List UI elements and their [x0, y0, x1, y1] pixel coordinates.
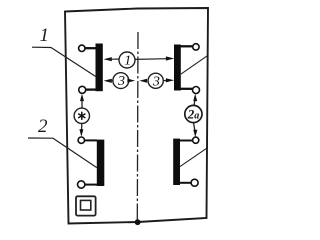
dimension row 2 right: left arrowhead from centerline [139, 79, 147, 83]
dimension row 1: right line across centerline [135, 58, 168, 61]
contact bracket top-right: upper arm wire [181, 45, 193, 47]
contact bracket top-left: upper arm wire [85, 47, 97, 49]
contact bracket top-left: lower terminal circle [79, 86, 86, 93]
dimension row 2 right: right arrowhead [166, 78, 174, 82]
centerline (dash-dot axis) [136, 32, 139, 221]
contact bracket bottom-left: upper arm wire [85, 139, 98, 141]
left vertical chain: up arrowhead [80, 94, 84, 102]
dimension circle 2a [185, 105, 202, 122]
svg-text:1: 1 [124, 54, 131, 69]
leader line of label 1 [32, 47, 96, 76]
right vertical chain: up arrowhead [193, 94, 197, 102]
contact bracket top-right: upper terminal circle [193, 44, 199, 50]
svg-text:a: a [194, 110, 199, 121]
contact bracket bottom-right: lower terminal circle [191, 179, 198, 186]
right vertical chain: wire to circle 2a [194, 100, 195, 106]
contact bracket top-left: bar [96, 44, 103, 92]
contact bracket bottom-right: bar [173, 139, 180, 185]
contact bracket top-right: lower arm wire [181, 88, 193, 90]
contact bracket bottom-left: lower terminal circle [78, 181, 85, 188]
contact bracket bottom-left: bar [97, 140, 105, 186]
contact bracket bottom-left: upper terminal circle [78, 137, 84, 143]
right vertical chain: wire below circle 2a [194, 123, 195, 132]
contact bracket top-right: lower terminal circle [193, 87, 200, 94]
dimension row 2 right: right line [163, 80, 167, 82]
contact bracket top-left: lower arm wire [86, 88, 97, 90]
dimension circle 1 [119, 52, 135, 68]
left vertical chain: down arrowhead [79, 129, 83, 137]
dimension row 2 left: left arrowhead [104, 79, 112, 83]
dimension row 2 left: right arrowhead toward centerline [127, 79, 135, 83]
star circle (asterisk symbol) [74, 108, 89, 123]
svg-text:1: 1 [40, 25, 50, 46]
contact bracket bottom-right: upper arm wire [180, 140, 193, 142]
dimension row 2 left: line [110, 80, 114, 82]
dimension circle 3 (right) [148, 73, 163, 88]
dimension row 1: left arrowhead [104, 57, 112, 61]
contact bracket bottom-right leader diagonal to border [180, 147, 208, 166]
left vertical chain: wire to star circle [81, 100, 83, 109]
contact bracket top-right: bar [174, 45, 181, 91]
dimension row 1: right arrowhead [166, 56, 174, 60]
junction dot at bottom border [135, 219, 141, 225]
enclosure symbol inner square [81, 200, 91, 210]
dimension row 1: left line [110, 58, 120, 60]
contact bracket bottom-left: lower arm wire [85, 184, 98, 186]
dimension circle 3 (left) [113, 73, 129, 89]
leader line of label 2 [28, 138, 97, 168]
svg-text:2: 2 [38, 116, 48, 137]
contact bracket bottom-right: lower arm wire [180, 182, 191, 184]
contact bracket bottom-right: upper terminal circle [193, 137, 199, 143]
contact bracket top-right leader diagonal to border [181, 56, 208, 75]
svg-text:3: 3 [152, 74, 160, 89]
enclosure symbol outer square [76, 196, 96, 215]
frame border of switch contact diagram [65, 8, 208, 224]
left vertical chain: wire below star circle [81, 124, 83, 132]
svg-text:3: 3 [117, 74, 125, 89]
right vertical chain: down arrowhead [193, 130, 197, 138]
contact bracket top-left: upper terminal circle [79, 45, 85, 51]
